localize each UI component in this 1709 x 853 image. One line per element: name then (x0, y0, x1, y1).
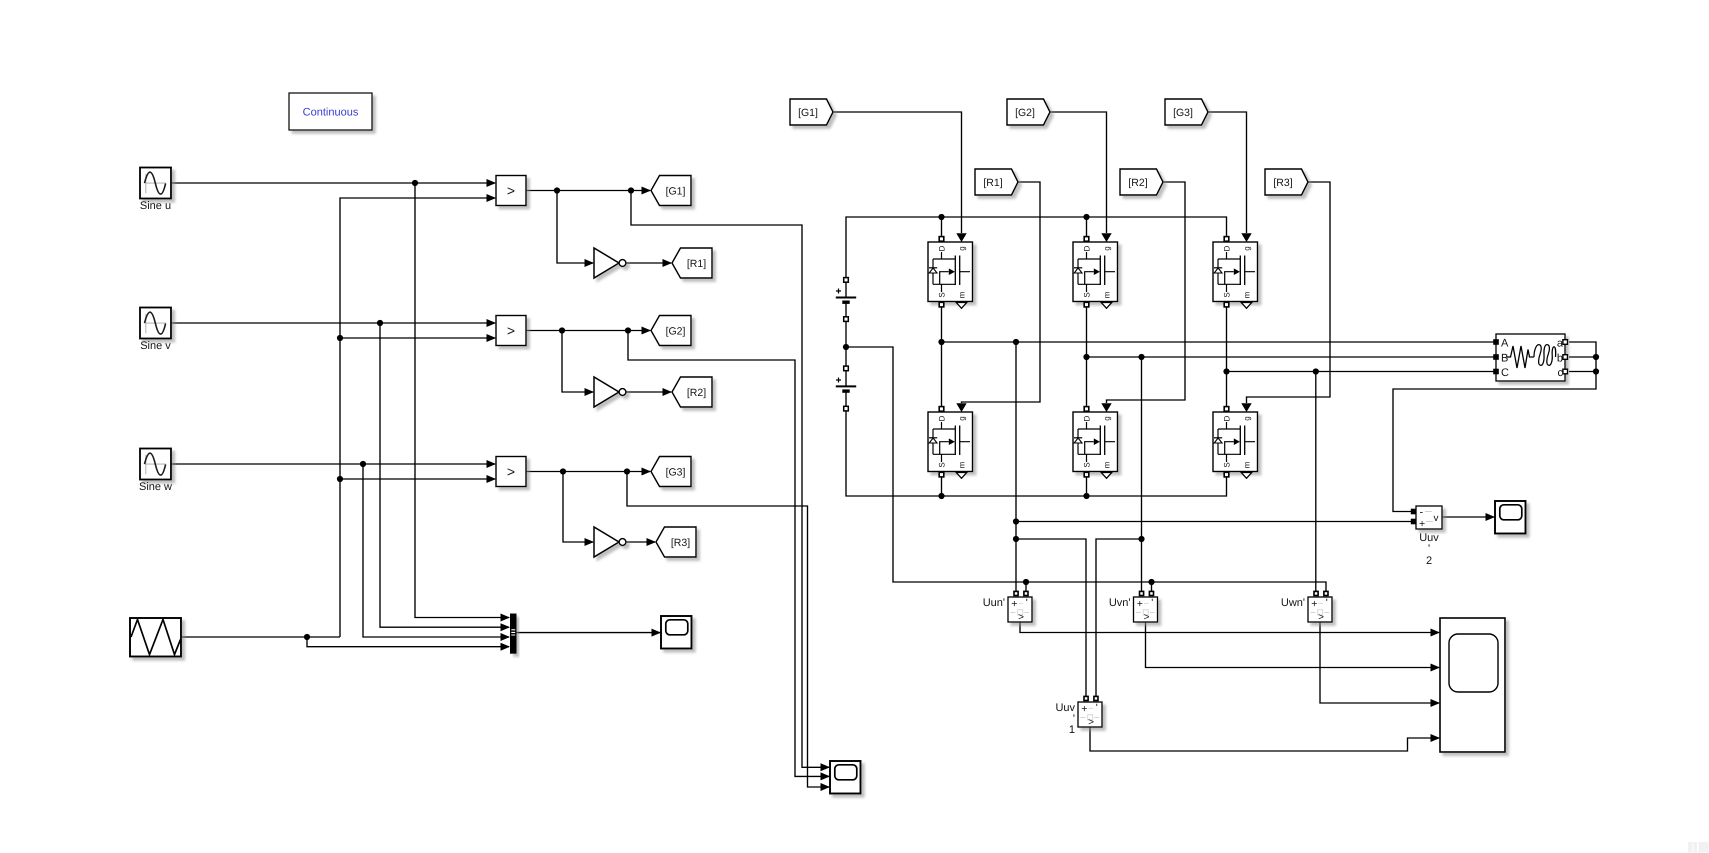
svg-text:[R1]: [R1] (687, 258, 706, 270)
wire: Uuv'2 output to scope (1442, 516, 1494, 518)
wire: Uuv'1 output to scope input 4 (1090, 727, 1439, 751)
wire: Sine w tap down to mux input 3 (363, 464, 509, 637)
wire: Sine u output to relational operator 1 input 1 (171, 182, 495, 184)
relational operator 2 (496, 316, 526, 346)
wire: phase W tap down to Uwn' plus port (1315, 372, 1317, 592)
Goto tag G3 (651, 457, 691, 487)
arrow: into Goto G2 (642, 327, 652, 335)
arrow: gate Q5 (1101, 403, 1111, 412)
svg-text:+: + (1419, 518, 1425, 530)
wire: Sine w output to relational operator 3 input 1 (171, 463, 495, 465)
wire: G3 signal down to pulses scope input 3 (627, 472, 829, 788)
wire: Sine v tap down to mux input 2 (380, 323, 509, 627)
svg-text:[R1]: [R1] (983, 177, 1002, 189)
arrow: into pulses scope input 3 (821, 783, 831, 791)
svg-text:v: v (1434, 513, 1439, 524)
node: phase V leg junction (1083, 354, 1089, 360)
wire: From R3 to MOSFET Q6 gate (1247, 182, 1331, 403)
four-input voltage scope (1440, 618, 1505, 752)
wire: carrier branch to relational operator 2 input 2 (340, 337, 495, 339)
wire: comparator 1 branch to NOT gate 1 (557, 191, 593, 264)
NOT gate 2 (594, 377, 626, 407)
node: triangle output branch (304, 634, 310, 640)
arrow: into voltage scope input 2 (1431, 664, 1441, 672)
node: star point c junction (1593, 368, 1599, 374)
DC voltage source B2 (836, 366, 856, 411)
wire: neutral drop to Uvn' second port (1151, 582, 1153, 591)
arrow: gate Q3 (1241, 233, 1251, 242)
relational operator 3 (496, 457, 526, 487)
arrow: gate Q1 (956, 233, 966, 242)
wire: Uun' output to scope input 1 (1020, 622, 1439, 633)
wire: G1 signal down to pulses scope input 1 (631, 191, 829, 768)
pulses scope (830, 761, 861, 794)
voltage measurement Uwn' (1281, 591, 1332, 623)
node: phase U measurement tap (1013, 339, 1019, 345)
wire: load output a to star point (1393, 342, 1596, 512)
wire: DC midpoint node n to measurement neutral rail (846, 347, 1326, 591)
wire: phase U branch to Uuv'1 plus port (1016, 539, 1086, 697)
wire: From R2 to MOSFET Q5 gate (1107, 182, 1186, 403)
wire: From G3 to MOSFET Q3 gate (1208, 112, 1247, 233)
node: U tap to Uuv'1 (1013, 536, 1019, 542)
wire: Sine u tap down to mux input 1 (415, 183, 509, 618)
wire: neutral drop to Uun' second port (1025, 582, 1027, 591)
svg-text:Uwn': Uwn' (1281, 597, 1305, 609)
svg-text:[R2]: [R2] (1128, 177, 1147, 189)
mux (4 inputs) (510, 614, 517, 654)
arrow: into Goto G1 (642, 187, 652, 195)
node: negative bus to Q4 (938, 493, 944, 499)
wire: relational operator 3 output to Goto G3 (526, 471, 650, 473)
svg-text:C: C (1501, 367, 1509, 379)
wire: phase U line to load input A (942, 341, 1496, 343)
wire: DC positive bus (846, 217, 1227, 278)
NOT gate 3 (594, 527, 626, 557)
MOSFET Q1 (928, 237, 973, 309)
powergui block "Continuous" (289, 93, 372, 130)
MOSFET Q4 (928, 407, 973, 479)
voltage measurement Uuv'2 (1411, 506, 1442, 567)
svg-text:': ' (1428, 543, 1430, 555)
node: phase W leg junction (1223, 368, 1229, 374)
arrow: into Goto G3 (642, 468, 652, 476)
node: Sine v mux tap (377, 320, 383, 326)
node: Sine w mux tap (360, 461, 366, 467)
svg-text:A: A (1501, 338, 1509, 350)
svg-text:-: - (1420, 507, 1424, 519)
svg-text:Uun': Uun' (983, 597, 1005, 609)
arrow: into Uuv scope (1486, 513, 1496, 521)
wire: load output b to star point (1569, 356, 1596, 358)
wire: mux output to scope (517, 632, 661, 634)
watermark (1688, 842, 1709, 853)
arrow: into voltage scope input 4 (1431, 734, 1441, 742)
node: G2 scope branch (625, 327, 631, 333)
arrow: into relop3 input2 (487, 475, 497, 483)
wire: DC negative bus (846, 411, 1227, 496)
From tag R2 (1120, 169, 1163, 195)
DC voltage source B1 (836, 278, 856, 367)
node: positive bus to Q2 (1083, 214, 1089, 220)
svg-text:Uvn': Uvn' (1109, 597, 1131, 609)
wire: relational operator 1 output to Goto G1 (526, 190, 650, 192)
arrow: into Goto R2 (663, 388, 673, 396)
voltage measurement Uun' (983, 591, 1032, 623)
wire: phase V tap down to Uvn' plus port (1141, 357, 1143, 591)
node: neutral to Uvn' (1148, 579, 1154, 585)
wire: phase W line to load input C (1227, 371, 1496, 373)
Goto tag G1 (651, 176, 691, 206)
MOSFET Q6 (1213, 407, 1258, 479)
svg-text:2: 2 (1426, 555, 1432, 567)
arrow: into NOT1 (585, 259, 595, 267)
wire: drop to Q2 drain (1086, 217, 1088, 237)
wire: phase V branch to Uuv'1 second port (1096, 539, 1142, 697)
wire: triangle carrier vertical feed to comparator second inputs (340, 198, 495, 637)
three-phase series RLC load (1493, 334, 1567, 381)
wire: Sine v output to relational operator 2 input 1 (171, 322, 495, 324)
node: V tap to Uuv'1 (1138, 536, 1144, 542)
node: positive bus to Q1 (938, 214, 944, 220)
wire: triangle branch to mux input 4 (307, 637, 509, 647)
modulation scope (661, 616, 692, 649)
arrow: into NOT2 (585, 388, 595, 396)
node: comparator 1 to NOT branch (554, 187, 560, 193)
wire: NOT gate 1 output to Goto R1 (626, 262, 671, 264)
svg-text:Sine w: Sine w (139, 481, 172, 493)
wire: From R1 to MOSFET Q4 gate (962, 182, 1041, 403)
wire: drop to Q1 drain (941, 217, 943, 237)
arrow: into pulses scope input 1 (821, 763, 831, 771)
arrow: into relop2 input1 (487, 319, 497, 327)
arrow: into Goto R3 (647, 538, 657, 546)
arrow: into mux input 2 (501, 623, 511, 631)
wire: phase V line to load input B (1087, 356, 1496, 358)
node: U tap to Uuv'2 (1013, 518, 1019, 524)
MOSFET Q5 (1073, 407, 1118, 479)
node: G3 scope branch (624, 468, 630, 474)
wire: G2 signal down to pulses scope input 2 (628, 331, 829, 777)
Goto tag R3 (656, 527, 696, 557)
Goto tag R2 (672, 377, 712, 407)
From tag G2 (1007, 99, 1050, 125)
node: phase W measurement tap (1313, 368, 1319, 374)
sine source "Sine w" (139, 449, 172, 494)
node: neutral to Uun' (1023, 579, 1029, 585)
sine source "Sine v" (140, 308, 171, 353)
wire: phase leg W vertical Q3 source to Q6 drain (1226, 302, 1228, 413)
triangle carrier generator (130, 618, 181, 657)
node: DC midpoint (843, 344, 849, 350)
svg-text:[G1]: [G1] (666, 186, 686, 198)
svg-text:[G2]: [G2] (1015, 107, 1035, 119)
svg-text:Sine v: Sine v (140, 340, 171, 352)
MOSFET Q3 (1213, 237, 1258, 309)
arrow: into relop3 input1 (487, 460, 497, 468)
wire: triangle generator output (181, 636, 340, 638)
arrow: into voltage scope input 1 (1431, 629, 1441, 637)
Goto tag G2 (651, 316, 691, 346)
node: Sine u mux tap (412, 180, 418, 186)
voltage measurement Uvn' (1109, 591, 1158, 623)
svg-text:1: 1 (1069, 724, 1075, 736)
voltage measurement Uuv'1 (1055, 696, 1102, 736)
node: carrier to comparator 2 (337, 335, 343, 341)
From tag R1 (975, 169, 1018, 195)
node: carrier to comparator 3 (337, 476, 343, 482)
node: comparator 3 to NOT branch (560, 468, 566, 474)
wire: Q5 source to negative bus (1086, 472, 1088, 497)
From tag R3 (1265, 169, 1308, 195)
wire: comparator 2 branch to NOT gate 2 (562, 331, 593, 393)
wire: phase leg V vertical Q2 source to Q5 drain (1086, 302, 1088, 413)
wire: comparator 3 branch to NOT gate 3 (563, 472, 593, 543)
svg-text:[G3]: [G3] (666, 467, 686, 479)
svg-text:b: b (1557, 353, 1563, 365)
arrow: gate Q2 (1101, 233, 1111, 242)
arrow: into mux input 1 (501, 614, 511, 622)
svg-text:[R2]: [R2] (687, 387, 706, 399)
node: phase U leg junction (938, 339, 944, 345)
wire: carrier branch to relational operator 3 input 2 (340, 478, 495, 480)
arrow: gate Q6 (1241, 403, 1251, 412)
wire: Uwn' output to scope input 3 (1320, 622, 1439, 703)
svg-text:Continuous: Continuous (303, 107, 359, 119)
wire: Uvn' output to scope input 2 (1146, 622, 1440, 668)
wire: NOT gate 3 output to Goto R3 (626, 541, 655, 543)
node: phase V measurement tap (1138, 354, 1144, 360)
arrow: into modulation scope (652, 629, 662, 637)
MOSFET Q2 (1073, 237, 1118, 309)
wire: relational operator 2 output to Goto G2 (526, 330, 650, 332)
sine source "Sine u" (140, 168, 171, 213)
arrow: into relop2 input2 (487, 334, 497, 342)
svg-text:[G2]: [G2] (666, 326, 686, 338)
From tag G3 (1165, 99, 1208, 125)
svg-text:[R3]: [R3] (1273, 177, 1292, 189)
Uuv scope (1495, 501, 1526, 534)
wire: NOT gate 2 output to Goto R2 (626, 391, 671, 393)
node: comparator 2 to NOT branch (559, 327, 565, 333)
arrow: into mux input 3 (501, 633, 511, 641)
From tag G1 (790, 99, 833, 125)
svg-text:B: B (1501, 353, 1508, 365)
arrow: into mux input 4 (501, 643, 511, 651)
wire: phase U branch to Uuv'2 plus port (1016, 521, 1411, 523)
arrow: into relop1 input1 (487, 179, 497, 187)
arrow: into NOT3 (585, 538, 595, 546)
node: negative bus to Q5 (1083, 493, 1089, 499)
Goto tag R1 (672, 248, 712, 278)
wire: From G2 to MOSFET Q2 gate (1050, 112, 1107, 233)
svg-text:[R3]: [R3] (671, 537, 690, 549)
NOT gate 1 (594, 248, 626, 278)
arrow: gate Q4 (956, 403, 966, 412)
svg-text:[G3]: [G3] (1173, 107, 1193, 119)
relational operator 1 (496, 176, 526, 206)
arrow: into Goto R1 (663, 259, 673, 267)
arrow: into relop1 input2 (487, 194, 497, 202)
node: star point b junction (1593, 354, 1599, 360)
svg-text:[G1]: [G1] (798, 107, 818, 119)
svg-text:Sine u: Sine u (140, 200, 171, 212)
arrow: into voltage scope input 3 (1431, 699, 1441, 707)
node: G1 scope branch (628, 187, 634, 193)
wire: phase leg U vertical Q1 source to Q4 drain (941, 302, 943, 413)
arrow: into pulses scope input 2 (821, 772, 831, 780)
wire: phase U tap down to Uun' plus port (1015, 342, 1017, 591)
wire: Q4 source to negative bus (941, 472, 943, 497)
wire: load output c to star point (1569, 371, 1596, 373)
wire: From G1 to MOSFET Q1 gate (833, 112, 962, 233)
